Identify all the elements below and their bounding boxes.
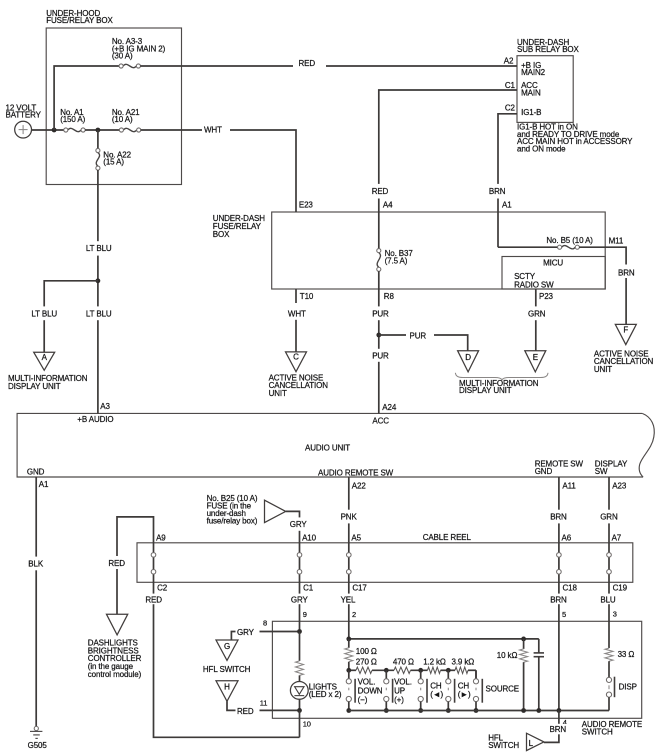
connector H HFL switch xyxy=(216,681,238,702)
wire pin 10 out of box xyxy=(299,710,301,737)
svg-text:A1: A1 xyxy=(502,201,512,210)
svg-text:2: 2 xyxy=(352,610,356,619)
switch SOURCE contacts xyxy=(473,670,478,710)
connector E to multi-information display xyxy=(525,351,546,372)
node resistor row junction xyxy=(346,668,351,673)
svg-text:10: 10 xyxy=(303,720,311,729)
wire 33ohm to DISP switch xyxy=(608,661,610,677)
node capacitor rail junction xyxy=(536,708,541,713)
fuse No. B37 (7.5A) xyxy=(377,249,381,272)
connector G HFL switch xyxy=(216,640,238,660)
wire resistor row segment xyxy=(468,669,476,671)
node resistor row junction xyxy=(384,668,389,673)
svg-text:YEL: YEL xyxy=(341,595,356,604)
label PNK on wire xyxy=(339,510,360,524)
wire BRN A11 to A6 xyxy=(558,477,560,543)
svg-text:A24: A24 xyxy=(382,403,397,412)
node 10k rail junction xyxy=(521,708,526,713)
switch actuator bar xyxy=(426,679,428,703)
svg-text:(►): (►) xyxy=(458,690,471,699)
svg-text:11: 11 xyxy=(260,698,268,707)
label LT BLU right xyxy=(84,306,114,320)
wire 100ohm upper xyxy=(348,639,350,648)
brace under D and E xyxy=(455,373,548,380)
svg-text:C1: C1 xyxy=(303,584,314,593)
svg-text:DOWN: DOWN xyxy=(358,687,383,696)
svg-text:A4: A4 xyxy=(383,201,393,210)
svg-text:8: 8 xyxy=(263,619,267,628)
wire ACC MAIN C1 to A4 xyxy=(379,90,517,249)
node bottom rail source junction xyxy=(474,708,479,713)
svg-text:IG1-B: IG1-B xyxy=(521,108,541,117)
svg-text:BATTERY: BATTERY xyxy=(6,111,42,120)
switch actuator bar xyxy=(454,679,456,703)
cable reel pass-through A7/C19 xyxy=(607,543,612,583)
svg-text:A5: A5 xyxy=(351,533,361,542)
svg-text:G505: G505 xyxy=(28,741,48,750)
svg-text:C1: C1 xyxy=(505,81,516,90)
cable reel pass-through A6/C18 xyxy=(557,543,562,583)
svg-text:SW: SW xyxy=(595,467,608,476)
wire resistor row segment xyxy=(411,669,428,671)
wire RED connector H to pin 11 xyxy=(227,701,300,710)
node 10k tap xyxy=(521,637,526,642)
svg-text:F: F xyxy=(623,326,628,335)
label PUR lower xyxy=(369,349,390,362)
svg-text:E: E xyxy=(533,353,538,362)
resistor 100 ohm xyxy=(345,648,353,662)
wire GRN A23 to A7 xyxy=(608,477,610,543)
svg-text:LT BLU: LT BLU xyxy=(86,244,112,253)
wire BRN pin 4 to HFL switch xyxy=(544,711,559,743)
svg-text:BOX: BOX xyxy=(213,230,230,239)
label RED on C2 wire xyxy=(144,594,165,605)
under-dash fuse/relay box xyxy=(272,212,606,289)
svg-text:control module): control module) xyxy=(88,670,142,679)
svg-text:RED: RED xyxy=(299,59,316,68)
wire BLU C19 to pin 3 xyxy=(608,582,610,621)
LED lights (LED x 2) xyxy=(290,682,308,700)
svg-text:C17: C17 xyxy=(352,584,367,593)
svg-text:CABLE REEL: CABLE REEL xyxy=(423,533,472,542)
svg-text:GND: GND xyxy=(535,467,553,476)
wire PUR fuse B37 to A24 xyxy=(378,271,380,413)
svg-text:SWITCH: SWITCH xyxy=(582,728,613,737)
svg-text:L: L xyxy=(529,739,534,748)
fuse No. A3-3 (30A) xyxy=(119,64,140,68)
wire RED fuse A3-3 to A2 sub relay box xyxy=(140,65,517,67)
svg-text:GRY: GRY xyxy=(291,595,309,604)
svg-text:C2: C2 xyxy=(157,584,168,593)
wire resistor row segment xyxy=(349,669,356,671)
svg-text:LT BLU: LT BLU xyxy=(86,309,112,318)
capacitor xyxy=(534,652,544,654)
switch CH (&#9658;) contacts xyxy=(446,670,451,710)
wire WHT fuse A21 to E23 drop xyxy=(141,130,296,212)
svg-text:UNIT: UNIT xyxy=(594,365,612,374)
wire capacitor upper xyxy=(538,639,540,653)
wire PUR branch to connector D xyxy=(379,335,468,351)
svg-text:10 kΩ: 10 kΩ xyxy=(497,651,518,660)
svg-text:RED: RED xyxy=(237,707,254,716)
svg-text:SUB RELAY BOX: SUB RELAY BOX xyxy=(517,45,580,54)
fuse No. A21 (10A) xyxy=(119,128,140,132)
MICU box xyxy=(502,257,605,290)
resistor 33 ohm xyxy=(605,648,613,661)
label BRN pin4 xyxy=(548,724,570,735)
label WHT lower xyxy=(286,303,308,320)
wire BLK A1 to ground G505 xyxy=(35,477,37,726)
svg-text:C19: C19 xyxy=(613,584,628,593)
label BRN on A1 wire xyxy=(488,184,509,199)
svg-text:AUDIO REMOTE SW: AUDIO REMOTE SW xyxy=(318,469,394,478)
resistor 470 &#937; xyxy=(394,667,411,673)
svg-text:GRY: GRY xyxy=(290,520,308,529)
svg-text:MAIN: MAIN xyxy=(521,88,541,97)
svg-text:DISPLAY UNIT: DISPLAY UNIT xyxy=(8,382,61,391)
node resistor row junction xyxy=(418,668,423,673)
wire capacitor lower xyxy=(538,657,540,711)
svg-text:RED: RED xyxy=(108,559,125,568)
svg-text:BRN: BRN xyxy=(550,595,567,604)
switch DISP contacts xyxy=(606,677,611,710)
svg-text:A23: A23 xyxy=(612,482,627,491)
svg-text:5: 5 xyxy=(562,610,566,619)
label GRN on P23 wire xyxy=(525,306,548,320)
wire resistor row segment xyxy=(372,669,394,671)
svg-text:470 Ω: 470 Ω xyxy=(393,657,414,666)
label GRN on A23 wire xyxy=(599,510,620,524)
svg-text:MAIN2: MAIN2 xyxy=(521,68,546,77)
wire LED to pin11 node xyxy=(299,699,301,710)
wire bottom rail xyxy=(349,710,609,712)
connector C to active noise cancellation xyxy=(286,352,307,372)
svg-text:(7.5 A): (7.5 A) xyxy=(385,256,408,265)
wire 100ohm lower xyxy=(348,662,350,671)
svg-text:BLU: BLU xyxy=(600,595,616,604)
svg-text:BRN: BRN xyxy=(618,268,635,277)
label RED on wire xyxy=(293,58,326,69)
wire RED C2 down and right to pin 10 xyxy=(154,582,300,737)
resistor lights chain xyxy=(296,661,304,676)
svg-text:(10 A): (10 A) xyxy=(112,115,133,124)
svg-text:(+): (+) xyxy=(394,696,404,705)
node PUR branch junction xyxy=(376,333,381,338)
svg-text:WHT: WHT xyxy=(288,310,306,319)
svg-text:G: G xyxy=(224,642,230,651)
svg-text:GND: GND xyxy=(27,468,45,477)
fuse No. B5 (10A) xyxy=(558,245,580,249)
wire BRN C18 to pin 5 and rail xyxy=(558,582,560,710)
wire A9 up and left xyxy=(117,517,154,614)
svg-text:AUDIO UNIT: AUDIO UNIT xyxy=(305,444,350,453)
under-hood fuse/relay box xyxy=(46,28,181,185)
svg-text:(−): (−) xyxy=(358,696,368,705)
fuse arrow No. B25 xyxy=(265,500,286,522)
svg-text:D: D xyxy=(465,353,471,362)
label RED on pin11 wire xyxy=(236,705,260,716)
svg-text:P23: P23 xyxy=(539,292,554,301)
svg-text:FUSE/RELAY BOX: FUSE/RELAY BOX xyxy=(46,16,113,25)
label BRN on M11 wire xyxy=(616,265,637,279)
wire M11 fuse B5 out to BRN drop xyxy=(579,247,626,324)
switch CH (&#9668;) contacts xyxy=(418,670,423,710)
svg-text:R8: R8 xyxy=(384,292,395,301)
svg-text:VOL.: VOL. xyxy=(358,678,376,687)
svg-text:HFL SWITCH: HFL SWITCH xyxy=(203,665,251,674)
svg-text:A10: A10 xyxy=(302,533,317,542)
audio unit box xyxy=(17,413,643,477)
svg-text:GRN: GRN xyxy=(600,512,618,521)
svg-text:RADIO SW: RADIO SW xyxy=(514,281,554,290)
wire IG1-B C2 to A1 underdash xyxy=(498,114,517,247)
resistor 10 kohm xyxy=(520,649,528,662)
svg-text:A: A xyxy=(42,353,48,362)
fuse No. A22 (15A) xyxy=(96,148,100,170)
cable reel box xyxy=(137,543,633,583)
node bottom rail junction xyxy=(346,708,351,713)
svg-text:DISP: DISP xyxy=(619,683,637,692)
label PUR on branch xyxy=(406,329,434,341)
svg-text:A2: A2 xyxy=(504,56,514,65)
wire fuse A1 to fuse A21 xyxy=(85,129,120,131)
svg-text:(◄): (◄) xyxy=(430,690,443,699)
svg-text:UP: UP xyxy=(394,687,405,696)
wire 10k lower xyxy=(523,662,525,710)
svg-text:33 Ω: 33 Ω xyxy=(618,650,635,659)
wire branch up to fuse A3-3 xyxy=(54,66,119,130)
node bottom rail junction xyxy=(418,708,423,713)
svg-text:3: 3 xyxy=(613,609,617,618)
arrow to dashlights brightness controller xyxy=(106,614,127,635)
label LT BLU left xyxy=(30,306,60,320)
svg-text:(150 A): (150 A) xyxy=(60,115,85,124)
wire GRY B25 to A10 xyxy=(286,511,300,542)
switch VOL. UP contacts xyxy=(384,670,389,710)
switch actuator bar xyxy=(481,679,483,703)
svg-text:1.2 kΩ: 1.2 kΩ xyxy=(423,657,446,666)
svg-text:SWITCH: SWITCH xyxy=(488,741,519,750)
svg-text:MICU: MICU xyxy=(543,259,563,268)
svg-text:GRY: GRY xyxy=(237,628,255,637)
svg-text:RED: RED xyxy=(372,187,389,196)
svg-text:PNK: PNK xyxy=(341,512,358,521)
svg-text:VOL.: VOL. xyxy=(394,678,412,687)
svg-text:BLK: BLK xyxy=(28,559,44,568)
svg-text:BRN: BRN xyxy=(550,725,567,734)
ground G505 xyxy=(30,726,42,738)
switch actuator bar xyxy=(354,679,356,703)
svg-text:SOURCE: SOURCE xyxy=(486,685,520,694)
svg-text:RED: RED xyxy=(145,595,162,604)
svg-text:BRN: BRN xyxy=(489,187,506,196)
wire GRN P23 to connector E xyxy=(535,289,537,351)
svg-text:T10: T10 xyxy=(300,292,314,301)
label BRN on A11 wire xyxy=(549,510,570,524)
node bottom rail junction xyxy=(384,708,389,713)
audio remote switch box xyxy=(272,621,641,718)
node junction at A22 branch xyxy=(96,128,101,133)
wire down from A22 branch xyxy=(97,130,99,149)
svg-text:A11: A11 xyxy=(562,482,576,491)
svg-text:WHT: WHT xyxy=(204,126,222,135)
wire resistor to LED xyxy=(299,675,301,681)
connector D to multi-information display xyxy=(458,351,479,372)
svg-text:C: C xyxy=(293,353,299,362)
svg-text:(15 A): (15 A) xyxy=(103,158,124,167)
label GRY on pin8 wire xyxy=(236,626,260,637)
node pin 11 junction xyxy=(297,708,302,713)
wire WHT T10 down to connector C xyxy=(295,289,297,352)
svg-text:GRN: GRN xyxy=(528,309,546,318)
wire GRY C1 to pin 9 xyxy=(299,582,301,631)
svg-text:100 Ω: 100 Ω xyxy=(356,647,377,656)
wire battery to fuse A1 xyxy=(32,129,65,131)
wire pin3 to 33ohm xyxy=(608,621,610,648)
svg-text:C2: C2 xyxy=(505,104,516,113)
node battery bus junction at A3-3 branch xyxy=(52,128,57,133)
wire source drop from row xyxy=(475,670,477,679)
svg-text:UNIT: UNIT xyxy=(269,389,287,398)
wire A1 to fuse B5 xyxy=(498,246,558,248)
label RED on A4 wire xyxy=(369,184,390,199)
svg-text:A1: A1 xyxy=(39,480,49,489)
node pin 8 junction xyxy=(297,629,302,634)
wire resistor row segment xyxy=(441,669,456,671)
svg-text:PUR: PUR xyxy=(372,351,389,360)
svg-text:ACC: ACC xyxy=(372,416,389,425)
battery B1 12V xyxy=(15,121,32,138)
svg-text:and ON mode: and ON mode xyxy=(517,144,566,153)
svg-text:9: 9 xyxy=(303,610,307,619)
resistor 3.9 k&#937; xyxy=(455,667,468,673)
label RED on dashlights wire xyxy=(107,556,128,569)
under-dash sub relay box xyxy=(517,56,573,123)
resistor 270 &#937; xyxy=(356,667,372,673)
svg-text:A22: A22 xyxy=(352,482,367,491)
label GRY on B25 wire xyxy=(289,517,311,530)
svg-text:A6: A6 xyxy=(562,533,572,542)
label YEL on C17 wire xyxy=(338,594,359,605)
resistor 1.2 k&#937; xyxy=(428,667,441,673)
label LT BLU upper xyxy=(84,241,114,255)
svg-text:3.9 kΩ: 3.9 kΩ xyxy=(452,657,475,666)
svg-text:270 Ω: 270 Ω xyxy=(356,657,377,666)
node BRN rail junction xyxy=(557,708,562,713)
svg-text:A9: A9 xyxy=(156,533,166,542)
svg-text:No. B5 (10 A): No. B5 (10 A) xyxy=(546,236,593,245)
wire top rail xyxy=(349,638,539,640)
cable reel pass-through A10/C1 xyxy=(297,543,302,583)
fuse No. A1 (150A) xyxy=(64,128,85,132)
switch DISP actuator bar xyxy=(614,677,616,698)
connector L HFL switch xyxy=(527,733,544,750)
svg-text:H: H xyxy=(224,683,230,692)
label BLK on wire xyxy=(26,557,47,571)
svg-text:BRN: BRN xyxy=(550,512,567,521)
cable reel pass-through A5/C17 xyxy=(347,543,352,583)
svg-text:PUR: PUR xyxy=(372,309,389,318)
svg-text:C18: C18 xyxy=(563,584,578,593)
node bottom rail junction xyxy=(446,708,451,713)
svg-text:M11: M11 xyxy=(609,237,624,246)
switch VOL. DOWN contacts xyxy=(346,670,351,710)
label BRN on C18 wire xyxy=(548,594,569,605)
label GRY on C1 wire xyxy=(289,594,311,605)
switch actuator bar xyxy=(392,679,394,703)
svg-text:LT BLU: LT BLU xyxy=(31,309,57,318)
svg-text:DISPLAY UNIT: DISPLAY UNIT xyxy=(459,386,512,395)
svg-text:(LED x 2): (LED x 2) xyxy=(309,690,342,699)
svg-text:A7: A7 xyxy=(612,533,622,542)
wire branch left at LT BLU split xyxy=(44,281,98,352)
svg-text:fuse/relay box): fuse/relay box) xyxy=(207,517,258,526)
wire GRY connector G to pin 8 xyxy=(231,632,299,641)
svg-text:A3: A3 xyxy=(100,402,110,411)
wire 10k upper xyxy=(523,639,525,649)
label WHT on wire xyxy=(202,123,230,135)
wire pin9 node to resistor xyxy=(299,632,301,661)
label PUR upper xyxy=(369,306,390,320)
wire PNK A22 to A5 xyxy=(348,477,350,543)
wire LT BLU fuse A22 down to A3 xyxy=(97,170,99,414)
cable reel pass-through A9/C2 xyxy=(151,543,156,583)
svg-text:(30 A): (30 A) xyxy=(112,52,133,61)
node pin2 rail corner xyxy=(346,637,351,642)
connector A to multi-information display xyxy=(34,352,55,370)
svg-text:E23: E23 xyxy=(299,201,314,210)
node resistor row junction xyxy=(446,668,451,673)
label BLU on C19 wire xyxy=(598,594,619,605)
svg-text:PUR: PUR xyxy=(410,332,427,341)
wire YEL C17 to pin 2 xyxy=(348,582,350,639)
svg-text:+B AUDIO: +B AUDIO xyxy=(77,415,113,424)
node LT BLU split junction xyxy=(96,278,101,283)
connector F to active noise cancellation xyxy=(615,324,636,344)
